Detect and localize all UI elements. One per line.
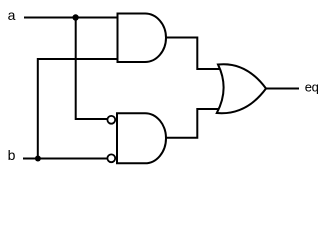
and-gate U1 (top) [118,14,167,63]
inverter bubble on U2 lower input [107,154,115,162]
or-gate U3 [217,64,266,113]
inverter bubble on U2 upper input [107,116,115,124]
wire U1 output to OR top input [166,38,220,70]
and-gate U2 (bottom, negated inputs) [117,113,166,163]
wire eq output [266,88,299,90]
wire a input [24,17,117,19]
node A junction dot [72,14,78,20]
wire b input [23,158,107,160]
wire U2 output to OR bottom input [166,109,219,138]
svg-text:b: b [8,147,16,163]
wire from node A down to lower AND upper input [76,18,108,120]
svg-text:a: a [8,7,16,23]
svg-text:eq: eq [305,80,319,95]
wire from node B up to upper AND lower input [38,59,117,159]
node B junction dot [35,156,41,162]
